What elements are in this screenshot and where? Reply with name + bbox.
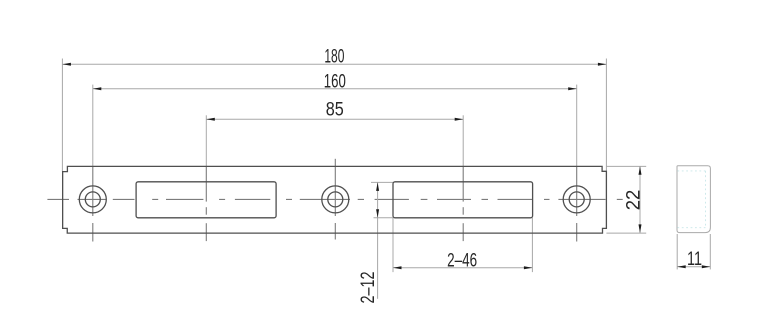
svg-text:180: 180: [324, 47, 344, 68]
svg-text:2–12: 2–12: [358, 272, 379, 304]
svg-text:85: 85: [326, 100, 344, 121]
svg-text:22: 22: [624, 190, 645, 211]
svg-text:160: 160: [324, 72, 346, 93]
svg-text:2–46: 2–46: [447, 250, 477, 271]
svg-text:11: 11: [687, 249, 702, 270]
